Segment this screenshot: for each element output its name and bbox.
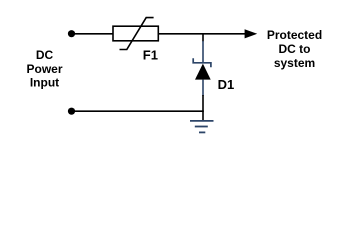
svg-text:Power: Power [26, 62, 62, 76]
fuse F1 diagonal strike [120, 18, 154, 50]
arrowhead: protected output [245, 29, 258, 38]
wire: diode top lead (navy) [202, 41, 204, 63]
wire: diode bottom lead (navy) [202, 80, 204, 96]
node: DC input positive terminal [68, 30, 75, 37]
svg-text:Input: Input [30, 76, 59, 90]
wire: fuse to arrow [158, 33, 249, 35]
diode D1 anode triangle [195, 64, 211, 80]
node: DC input negative terminal [68, 108, 75, 115]
fuse F1 body [113, 26, 158, 41]
diode D1 zener cathode bar [193, 58, 211, 67]
svg-text:DC to: DC to [279, 42, 311, 56]
wire: input to fuse [74, 33, 113, 35]
svg-text:F1: F1 [143, 48, 158, 63]
wire: bottom rail [74, 110, 204, 112]
wire: junction down to diode (black segment) [202, 34, 204, 42]
ground symbol [190, 121, 214, 132]
svg-text:DC: DC [36, 48, 54, 62]
svg-text:Protected: Protected [267, 28, 322, 42]
svg-text:system: system [274, 56, 315, 70]
wire: diode to ground (black segment) [202, 95, 204, 121]
svg-text:D1: D1 [218, 77, 235, 92]
